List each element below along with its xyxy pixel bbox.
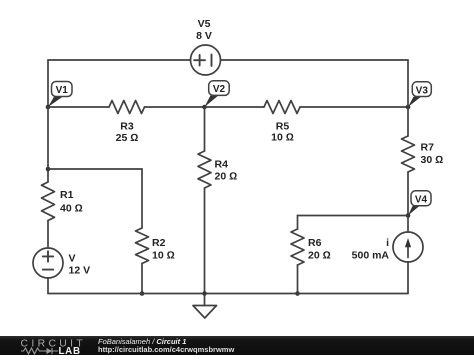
svg-text:V3: V3 <box>416 85 429 96</box>
svg-text:R6: R6 <box>308 237 322 249</box>
wire left rail upper <box>47 60 49 107</box>
svg-text:LAB: LAB <box>59 346 81 355</box>
voltage source V 12V <box>33 248 90 278</box>
wire R2 bottom <box>141 264 143 294</box>
voltage source V5 <box>191 18 221 75</box>
wire current source to bottom rail <box>407 262 409 294</box>
wire R5 to V3 <box>300 106 408 108</box>
svg-text:R3: R3 <box>120 120 134 132</box>
wire R6 top <box>297 216 299 230</box>
wire R7 to current source <box>407 172 409 232</box>
node V4 <box>406 191 431 218</box>
node R6 bottom junction <box>295 291 300 296</box>
wire source V to bottom rail <box>47 278 49 294</box>
wire R2 top <box>141 169 143 228</box>
wire junction to R2 column <box>48 168 142 170</box>
resistor R1 <box>42 182 83 221</box>
svg-text:30 Ω: 30 Ω <box>421 154 444 166</box>
svg-text:V4: V4 <box>415 195 428 206</box>
wire R4 bottom <box>204 188 206 294</box>
wire mid V1 to R3 <box>48 106 109 108</box>
resistor R2 <box>136 228 175 264</box>
svg-text:25 Ω: 25 Ω <box>116 132 139 144</box>
wire R4 top <box>204 107 206 151</box>
ground <box>193 294 217 319</box>
node V2 <box>202 81 229 109</box>
svg-text:8 V: 8 V <box>196 30 212 42</box>
wire top rail left <box>48 59 191 61</box>
svg-text:10 Ω: 10 Ω <box>152 250 175 262</box>
node V1 <box>46 82 72 110</box>
svg-text:500 mA: 500 mA <box>352 249 390 261</box>
wire bottom rail <box>48 293 408 295</box>
svg-text:12 V: 12 V <box>69 265 91 277</box>
svg-text:R5: R5 <box>276 120 290 132</box>
node ground junction <box>202 291 207 296</box>
current source I1 <box>352 232 423 262</box>
wire R3 to V2 <box>145 106 205 108</box>
svg-text:V5: V5 <box>198 18 211 30</box>
wire mid V2 to R5 <box>205 106 265 108</box>
footer url <box>98 345 234 354</box>
wire right rail upper <box>407 60 409 136</box>
svg-text:V1: V1 <box>56 85 69 96</box>
wire left rail mid <box>47 107 49 182</box>
svg-text:R7: R7 <box>421 142 435 154</box>
CircuitLab logo <box>20 336 105 360</box>
wire R1 to source V <box>47 221 49 249</box>
resistor R4 <box>198 151 237 188</box>
svg-text:V2: V2 <box>213 84 226 95</box>
resistor R3 <box>109 101 145 145</box>
node V3 <box>406 82 432 109</box>
wire R6 bottom <box>297 265 299 294</box>
footer bar <box>0 336 474 355</box>
svg-text:V: V <box>69 253 76 265</box>
svg-text:i: i <box>386 237 389 249</box>
node R2 bottom junction <box>140 291 145 296</box>
node junction left rail <box>46 167 51 172</box>
resistor R5 <box>264 101 300 144</box>
svg-text:R2: R2 <box>152 237 166 249</box>
resistor R6 <box>291 229 331 265</box>
wire V4 to R6 column <box>298 215 409 217</box>
svg-text:40 Ω: 40 Ω <box>60 203 83 215</box>
wire top rail right <box>221 59 409 61</box>
svg-text:R1: R1 <box>60 189 74 201</box>
svg-text:20 Ω: 20 Ω <box>215 170 238 182</box>
svg-text:20 Ω: 20 Ω <box>308 250 331 262</box>
resistor R7 <box>402 136 444 172</box>
svg-text:R4: R4 <box>215 159 229 171</box>
svg-text:10 Ω: 10 Ω <box>271 132 294 144</box>
footer title <box>98 337 186 346</box>
